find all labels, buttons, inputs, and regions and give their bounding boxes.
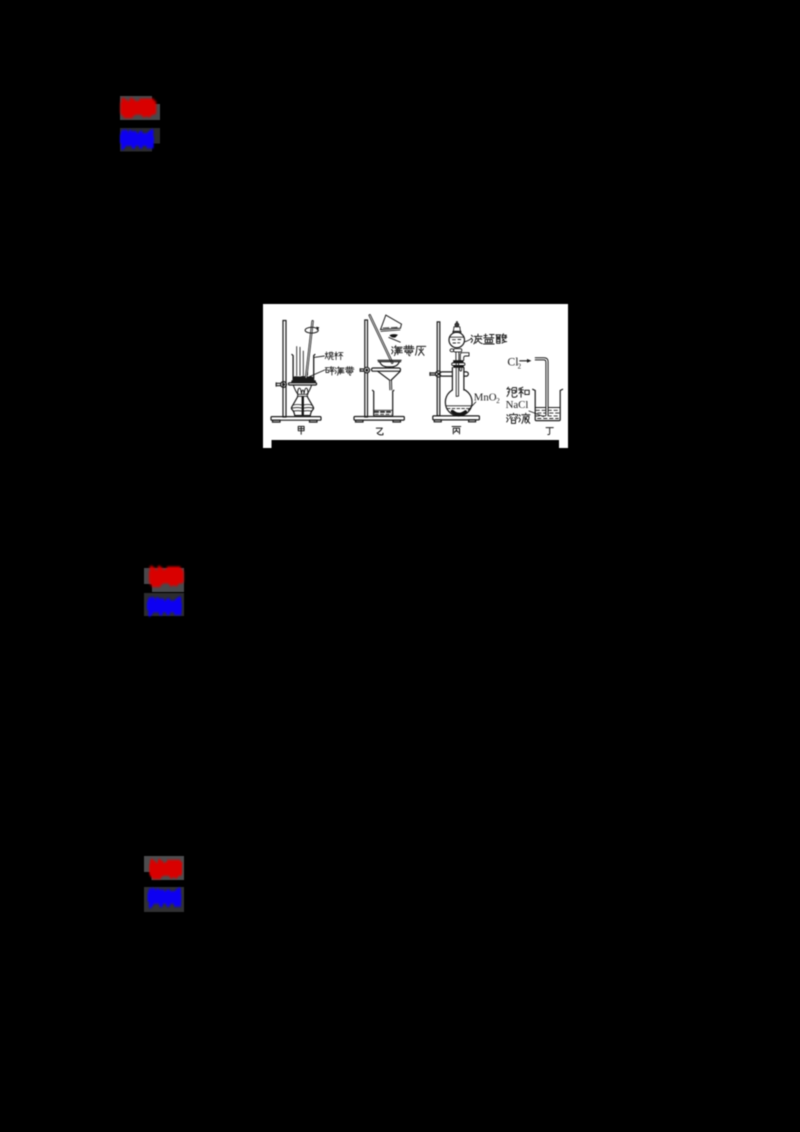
svg-text:NaCl: NaCl [506,399,529,411]
svg-text:MnO: MnO [474,391,497,403]
svg-text:2: 2 [518,363,522,371]
svg-text:2: 2 [496,397,500,405]
